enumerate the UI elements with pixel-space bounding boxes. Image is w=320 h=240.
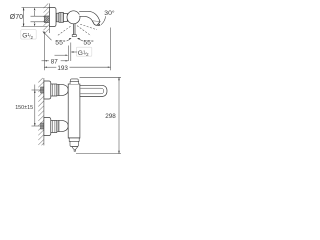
extension lines pair below lever [67,46,69,62]
upper union nut [51,84,57,96]
svg-text:30°: 30° [104,9,115,17]
upper union dome to body [59,84,68,95]
lever inner contour [80,88,104,94]
wall hatching (bottom view) [38,78,44,145]
lever handle (top view, pointing to viewer) [72,24,74,35]
svg-text:Ø70: Ø70 [10,14,23,21]
svg-text:298: 298 [105,113,116,120]
lower union ring [57,121,59,132]
small arrow row (to ext line) [55,54,66,56]
outlet tip [74,149,75,151]
lower escutcheon [44,118,51,136]
dimension 193 (wall to spout tip) [110,28,112,71]
dimension O70 (escutcheon diameter) [22,8,50,27]
escutcheon (top view, side profile) [49,8,56,27]
svg-text:193: 193 [57,65,68,72]
leader 55 left to lever [67,39,70,41]
svg-text:55°: 55° [83,39,94,47]
spout mouth (tilted outlet end) [92,21,100,25]
G1/2 thread tail (dark block behind wall) [45,16,50,23]
phantom dashed line, spout swivel 30deg [80,24,97,30]
body tube (top view) [63,13,67,21]
lever (capsule, pointing right) [80,85,107,96]
thread tail lower union (dark) [41,123,44,129]
lower union dome to body [59,120,68,131]
body bottom outlet [69,137,80,139]
supply pipe stub behind wall [31,16,45,22]
dimension 87 (wall to lever) [43,32,45,71]
lower union nut [51,121,57,133]
leader from 55-left label to wall [44,32,52,40]
mixer body (vertical, rotated front view) [68,84,80,138]
label G1/2 (union thread, with link box) [21,30,36,39]
upper union ring [57,85,59,96]
leader from G1/2 to lever centerline [72,51,78,53]
dimension 298 (overall height) [76,77,121,153]
second dim arrow pair at x35 [34,8,36,11]
upper escutcheon [44,81,51,99]
thread tail upper union (dark) [41,87,44,93]
leader 55 right to lever [79,39,83,41]
cartridge circle (lever pivot, top view) [67,11,80,24]
union ring (top view) [56,13,59,22]
wall face line (top view) [48,4,50,34]
dimension 150+-15 [32,85,44,127]
spout (top view) [79,11,100,21]
wall hatching (top view) [44,4,50,34]
phantom dashed line, lever swung right 55deg [77,26,91,36]
wall face line (bottom view) [43,78,45,145]
30deg arc arrow [101,16,106,25]
label G1/2 (shower outlet, with link box) [76,47,91,56]
svg-text:150±15: 150±15 [15,105,33,111]
svg-text:55°: 55° [55,39,66,47]
phantom dashed line, lever swung left 55deg [57,26,71,36]
body top collar [71,79,79,81]
union nut (top view) [59,13,63,23]
